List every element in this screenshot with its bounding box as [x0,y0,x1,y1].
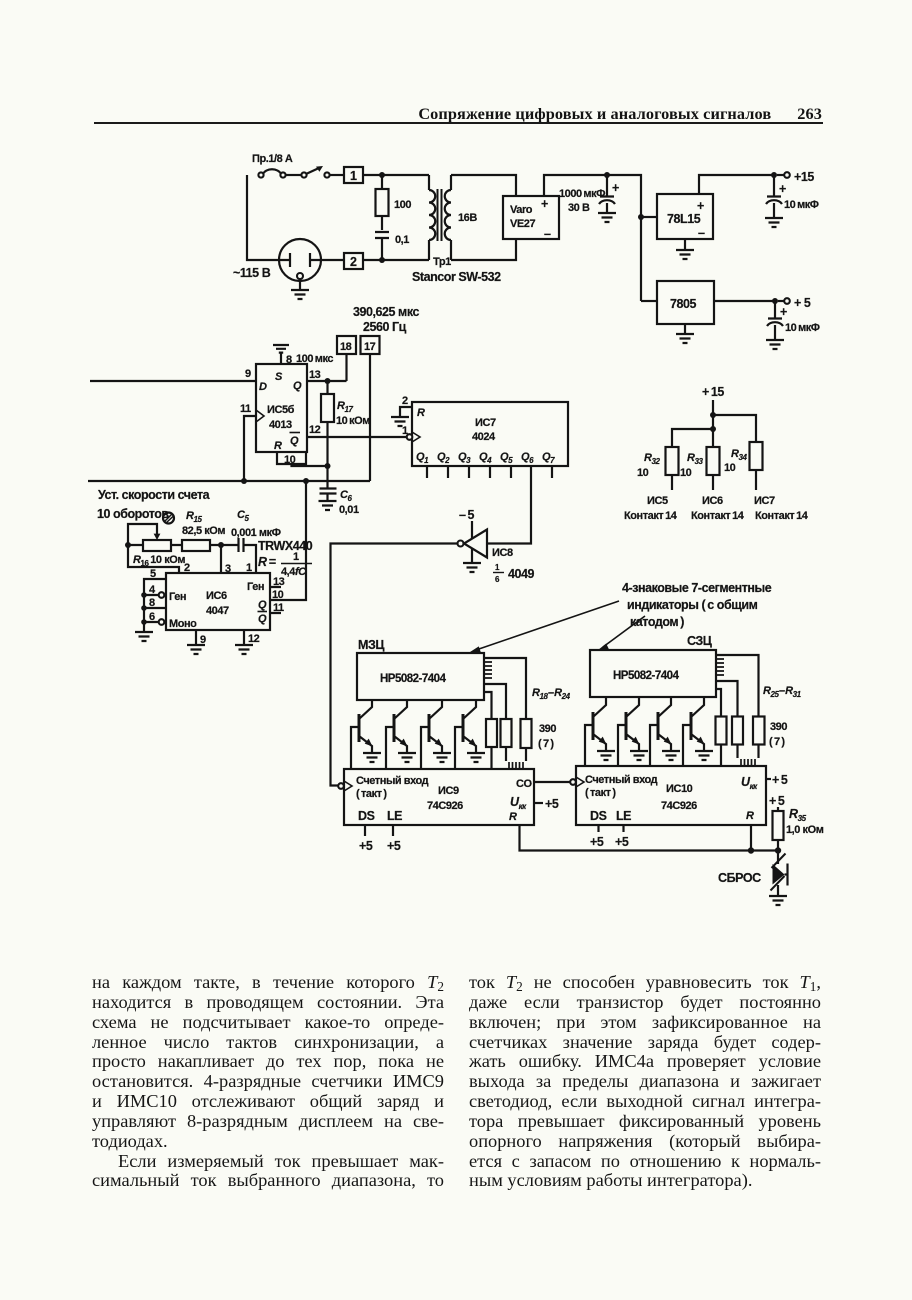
svg-text:+: + [780,305,787,319]
svg-text:4047: 4047 [206,605,229,617]
switch S1 [301,172,306,177]
transformer Tp1 primary winding [429,175,435,260]
svg-text:R34: R34 [731,448,747,462]
wire IC9 R to reset rail [520,825,779,851]
svg-text:8: 8 [149,597,155,609]
wire IC9 DS supply [364,825,366,836]
svg-text:2: 2 [402,395,408,407]
svg-text:+ 5: + 5 [772,773,788,787]
counter IC10 74C926 [576,766,766,825]
svg-text:0,001 мкФ: 0,001 мкФ [231,527,281,539]
svg-text:R =: R = [258,555,277,569]
regulator 7805 [657,281,714,324]
svg-text:6: 6 [495,575,500,584]
svg-text:16В: 16В [458,212,477,224]
svg-text:1000 мкФ: 1000 мкФ [559,188,605,200]
wire R16 to R15 [128,544,182,546]
svg-text:10 мкΦ: 10 мкΦ [784,199,819,211]
svg-text:Контакт 14: Контакт 14 [755,510,809,522]
svg-text:Тр1: Тр1 [433,256,451,268]
pin 10 box [277,452,306,464]
pin 12 stub and ground [243,630,245,645]
wire pin 2 loop [128,545,179,573]
wire box17 lead [369,354,371,481]
svg-text:R17: R17 [337,400,353,414]
wire C5 to pin 1 [244,545,257,573]
ground of emitter [467,753,485,762]
wire Q-bar to IC7 clock [307,436,407,438]
svg-text:CO: CO [516,778,532,790]
ground of 1000 мкФ [598,213,616,222]
svg-text:Пр.1/8 А: Пр.1/8 А [252,153,293,165]
svg-text:30 В: 30 В [568,202,590,214]
capacitor C5 [239,538,244,552]
svg-text:1: 1 [495,563,500,572]
svg-text:R18 – R24: R18 – R24 [532,687,571,701]
ground of 78L15 [684,239,686,250]
transistor Q1 МЗЦ [351,700,381,769]
resistor R34 [750,442,763,470]
svg-text:+ 15: + 15 [702,385,724,399]
svg-text:НР5082-7404: НР5082-7404 [380,673,447,685]
svg-text:2: 2 [350,255,357,269]
resistor R18 group b [501,719,512,747]
svg-text:Uкк: Uкк [741,775,758,791]
wire rectifier + output rail [544,175,641,301]
ground of 7805 [684,324,686,334]
svg-text:11: 11 [240,403,251,415]
svg-text:+ 5: + 5 [769,794,785,808]
wiper arrow of R16 [128,524,157,545]
wire comb into IC9 [509,762,523,769]
left pin bus of IC6 [144,579,166,632]
resistor R32 [666,447,679,475]
wire to +15 terminal [777,174,784,176]
svg-text:78L15: 78L15 [667,212,701,226]
svg-text:10 кОм: 10 кОм [336,415,370,427]
ground of 10 мкФ (+15) [765,218,783,227]
resistor 100 [381,175,383,189]
right pin stubs IC6 [270,587,281,613]
svg-text:0,1: 0,1 [395,234,409,246]
transistor Q3 СЗЦ [650,697,680,766]
svg-text:VE27: VE27 [510,218,535,230]
wire IC9 Ukk supply [534,802,543,804]
wire inverter output down to IC9 clock [331,544,459,786]
header running title [0,104,822,124]
svg-text:10: 10 [637,467,649,479]
body text left column [92,972,444,1190]
wire IC10 R lead [750,825,752,851]
counter IC9 74C926 [344,769,534,825]
node bus junctions [141,592,147,598]
wire fuse to switch [285,174,301,176]
svg-text:R15: R15 [186,510,202,524]
annotation arrow to МЗЦ [476,601,619,650]
wire switch to box 1 [330,174,344,176]
pin bubbles IC6 left [159,592,165,598]
svg-text:R33: R33 [687,452,703,466]
svg-text:+5: +5 [590,835,604,849]
regulator 78L15 [657,194,713,239]
svg-text:10: 10 [724,462,736,474]
node junction R32 [710,426,716,432]
wire IC10 LE supply [622,825,624,832]
wire AC left vertical [247,175,279,260]
terminal +15 [784,172,790,178]
wire IC10 DS supply [597,825,599,832]
wire pin 11 [244,416,256,481]
svg-text:ИС5: ИС5 [647,495,668,507]
svg-text:7805: 7805 [670,297,697,311]
wire D input line [90,380,256,382]
svg-text:Uкк: Uкк [510,795,527,811]
svg-text:+: + [779,182,786,196]
svg-text:НР5082-7404: НР5082-7404 [613,670,680,682]
pushbutton СБРОС [777,851,779,865]
ground of IC6 left bus [135,632,153,641]
svg-text:ИС7: ИС7 [754,495,775,507]
header rule [94,122,823,124]
transformer Tp1 secondary winding [445,175,451,260]
svg-text:R: R [417,407,425,419]
wire pin 10 to rail riser [270,481,306,600]
wire box1 to transformer [363,174,429,176]
clock input bubble IC7 [407,434,413,440]
resistor R15 [182,540,210,551]
annotation arrow to СЗЦ [603,616,645,647]
wire clock select rail [88,480,370,482]
wire to 7805 [641,300,657,302]
svg-text:Счетный вход: Счетный вход [585,774,658,786]
ground of AC plug [291,290,309,299]
ground of emitter [398,753,416,762]
transistor Q4 СЗЦ [683,697,713,766]
node junction 78L15 input [638,214,644,220]
svg-text:74С926: 74С926 [427,800,463,812]
svg-text:ИС9: ИС9 [438,785,459,797]
svg-text:–: – [698,226,705,240]
svg-text:LE: LE [616,809,631,823]
svg-text:~115 В: ~115 В [233,266,271,280]
wire to +5 terminal [778,300,784,302]
resistor R18 group c [521,719,532,748]
svg-text:R25 – R31: R25 – R31 [763,685,802,699]
svg-text:Q: Q [290,435,299,447]
svg-text:– 5: – 5 [459,508,475,522]
svg-text:Varo: Varo [510,204,533,216]
ground of IC7 reset [391,417,409,426]
fuse Пр1 [258,172,263,177]
wire IC9 LE supply [392,825,394,836]
svg-text:13: 13 [309,369,321,381]
multivibrator IC6 4047 [166,573,270,630]
wire Q to boxes [307,380,347,382]
wire R15 to C5 [210,544,238,546]
terminal box 2 [344,253,363,269]
wire 78L15 output [699,175,774,194]
svg-text:( такт ): ( такт ) [356,788,387,800]
clock bubble IC9 [338,783,344,789]
wire pin 3 drop [220,545,222,573]
svg-text:100: 100 [394,199,411,211]
svg-text:18: 18 [340,341,352,353]
svg-text:( 7 ): ( 7 ) [538,738,554,750]
node junction +5 cap [772,298,778,304]
trimmer screw symbol [163,513,174,524]
svg-text:Ген: Ген [247,581,264,593]
node reset junction R35 [775,847,781,853]
svg-text:D: D [259,381,267,393]
svg-text:390: 390 [770,721,787,733]
wire 7805 output [714,300,775,302]
display block СЗЦ HP5082-7404 [590,650,716,697]
svg-text:C5: C5 [237,509,250,523]
svg-text:R: R [509,811,517,823]
svg-text:9: 9 [245,368,251,380]
ground of emitter [597,751,615,760]
svg-text:TRWX440: TRWX440 [258,539,313,553]
resistor R25 group a [716,717,727,745]
wire box18 lead [345,354,347,381]
svg-text:+5: +5 [387,839,401,853]
counter IC7 4024 [412,402,568,466]
svg-text:11: 11 [273,602,284,614]
svg-text:C6: C6 [340,489,353,503]
svg-text:СБРОС: СБРОС [718,871,761,885]
svg-text:+ 5: + 5 [794,296,811,310]
potentiometer R16 [143,540,171,551]
node junction R34 [710,412,716,418]
svg-text:Q: Q [258,599,267,611]
transistor Q3 МЗЦ [421,700,451,769]
svg-text:17: 17 [364,341,376,353]
segment comb СЗЦ [716,659,724,675]
wire pin10 to R17 lead [292,464,328,466]
ground of emitter [363,753,381,762]
svg-text:Q3: Q3 [458,451,471,465]
resistor R17 [326,381,328,394]
svg-text:индикаторы ( с общим: индикаторы ( с общим [627,598,758,612]
svg-text:Контакт 14: Контакт 14 [691,510,745,522]
node pin3 junction [218,542,224,548]
resistor R18 group a [486,719,497,747]
svg-text:1,0 кОм: 1,0 кОм [786,824,824,836]
svg-text:13: 13 [273,576,285,588]
svg-text:+5: +5 [615,835,629,849]
svg-text:Моно: Моно [169,618,197,630]
svg-text:Ген: Ген [169,591,186,603]
wire -5 supply lead [471,521,473,538]
wire plug to box 2 [321,259,344,261]
svg-text:Q: Q [293,380,302,392]
svg-text:82,5 кОм: 82,5 кОм [182,525,225,537]
ground of emitter [433,753,451,762]
node junction bottom of 0,1 [379,257,385,263]
svg-text:Q1: Q1 [416,451,429,465]
svg-text:R35: R35 [789,807,807,823]
svg-text:Q7: Q7 [542,451,555,465]
svg-text:12: 12 [309,424,321,436]
svg-text:390: 390 [539,723,556,735]
ground above S pin of IC5 [273,345,289,353]
svg-text:5: 5 [150,568,156,580]
rectifier U1 Varo VE27 [503,196,559,239]
wire IC10 Ukk supply [766,778,771,780]
node Q junction [325,378,331,384]
node R16 left junction [125,542,131,548]
clock chevron IC5 [256,410,264,422]
svg-text:4013: 4013 [269,419,292,431]
wire S pin [280,353,282,364]
ground of emitter [662,751,680,760]
svg-text:СЗЦ: СЗЦ [687,634,713,648]
svg-text:ИС6: ИС6 [206,590,227,602]
svg-text:Контакт 14: Контакт 14 [624,510,678,522]
svg-text:ИС8: ИС8 [492,547,513,559]
svg-text:Q2: Q2 [437,451,450,465]
wire pin 2 to ground [400,407,412,417]
svg-text:( 7 ): ( 7 ) [769,736,785,748]
svg-text:R: R [274,440,282,452]
svg-text:9: 9 [200,634,206,646]
svg-text:4024: 4024 [472,431,496,443]
svg-text:10 мкΦ: 10 мкΦ [785,322,820,334]
svg-text:ИС10: ИС10 [666,783,693,795]
wire to 78L15 [641,216,657,218]
svg-text:+5: +5 [359,839,373,853]
svg-text:Q4: Q4 [479,451,492,465]
svg-text:Счетный вход: Счетный вход [356,775,429,787]
wire comb into IC10 [741,759,755,766]
wire Q6 to inverter [487,466,531,544]
svg-text:МЗЦ: МЗЦ [358,638,385,652]
terminal +5 [784,298,790,304]
svg-text:Q6: Q6 [521,451,534,465]
svg-text:ИС5б: ИС5б [267,404,295,416]
pin 9 stub and ground [195,630,197,645]
terminal box 1 [344,167,363,183]
transistor Q1 СЗЦ [585,697,615,766]
ground of emitter [630,751,648,760]
svg-text:4049: 4049 [508,567,535,581]
svg-text:1: 1 [350,169,357,183]
wire box2 to transformer [363,259,429,261]
svg-text:Q5: Q5 [500,451,513,465]
svg-text:ИС6: ИС6 [702,495,723,507]
terminal box 17 [361,336,380,354]
terminal box 18 [337,336,356,354]
ground of 10 мкФ (+5) [766,340,784,349]
svg-text:0,01: 0,01 [339,504,359,516]
svg-text:LE: LE [387,809,402,823]
capacitor 10 мкФ (+5) [768,301,782,319]
svg-text:+15: +15 [794,170,814,184]
svg-text:( такт ): ( такт ) [585,787,616,799]
svg-text:ИС7: ИС7 [475,417,496,429]
capacitor 10 мкФ (+15) [767,175,781,197]
flip-flop IC5b 4013 [256,364,307,452]
wire +15 distribution [672,400,756,447]
svg-text:+: + [612,181,619,195]
svg-text:R: R [746,810,754,822]
svg-text:10: 10 [680,467,692,479]
svg-text:S: S [275,371,283,383]
resistor R25 group b [732,717,743,745]
node pin10 junction [325,463,331,469]
svg-text:4,4fC: 4,4fC [281,566,307,578]
svg-text:390,625 мкс: 390,625 мкс [353,305,419,319]
display block МЗЦ HP5082-7404 [357,653,484,700]
transistor Q4 МЗЦ [455,700,485,769]
svg-text:2560 Гц: 2560 Гц [363,320,407,334]
svg-text:12: 12 [248,633,260,645]
svg-text:R32: R32 [644,452,660,466]
node junction filter cap [604,172,610,178]
ground of pushbutton [769,896,787,905]
wire СЗЦ to R25 bundle [716,655,759,717]
node junction +15 cap [771,172,777,178]
wire МЗЦ to R18 bundle [484,658,526,719]
ground of emitter [695,751,713,760]
node rail junction pin11 [241,478,247,484]
transistor Q2 СЗЦ [618,697,648,766]
resistor R35 1,0 кОм [777,807,779,811]
capacitor 1000 мкФ 30 В [600,175,614,197]
wire secondary to rectifier [451,175,516,196]
body text right column [469,972,821,1190]
inverter IC8 1/6 4049 [464,530,487,558]
clock bubble IC10 [570,779,576,785]
svg-text:Stancor SW-532: Stancor SW-532 [412,270,501,284]
capacitor C6 [320,489,337,502]
svg-text:+5: +5 [545,797,559,811]
svg-text:–: – [544,227,551,241]
transistor Q2 МЗЦ [386,700,416,769]
svg-text:DS: DS [358,809,375,823]
pin stubs Q1-Q5, Q7 [427,466,552,478]
AC plug ~115 В [279,239,321,281]
svg-text:+: + [697,199,704,213]
svg-text:1: 1 [293,551,299,563]
transformer core [438,189,442,241]
capacitor 0,1 [375,232,389,260]
svg-text:DS: DS [590,809,607,823]
svg-text:Q: Q [258,613,267,625]
segment comb МЗЦ [484,662,492,678]
svg-text:4-знаковые 7-сегментные: 4-знаковые 7-сегментные [622,581,772,595]
svg-text:10: 10 [284,454,296,466]
node reset junction IC10 [748,847,754,853]
svg-text:6: 6 [149,611,155,623]
node rail junction IC6 riser [303,478,309,484]
resistor R33 [707,447,720,475]
svg-text:Уст. скорости счета: Уст. скорости счета [98,488,211,502]
svg-text:74С926: 74С926 [661,800,697,812]
svg-text:+: + [541,197,548,211]
ground of inverter [471,549,473,563]
wire CO to IC10 clock [534,781,570,783]
node junction top of R100 [379,172,385,178]
svg-text:10 оборотов: 10 оборотов [97,507,169,521]
svg-text:10: 10 [272,589,284,601]
resistor R25 group c [753,717,765,745]
